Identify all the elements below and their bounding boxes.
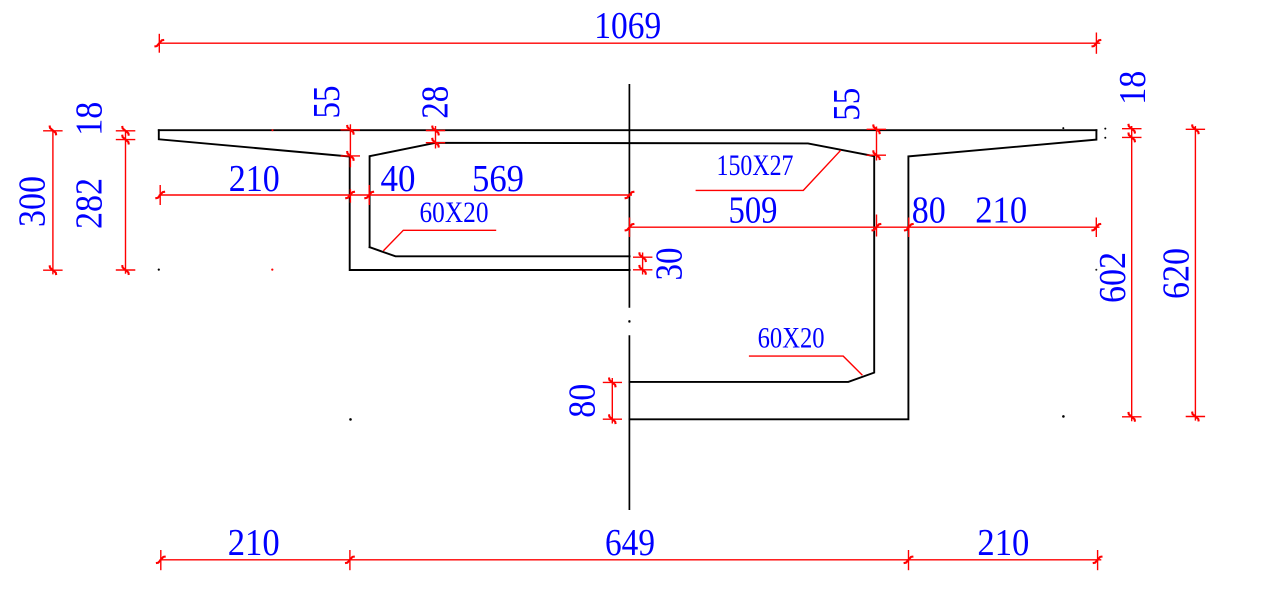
svg-text:60X20: 60X20	[758, 322, 825, 355]
svg-text:28: 28	[415, 86, 457, 119]
svg-text:80: 80	[561, 384, 603, 418]
svg-text:1069: 1069	[594, 5, 661, 47]
svg-text:620: 620	[1156, 248, 1198, 299]
svg-text:60X20: 60X20	[420, 196, 489, 229]
svg-text:40: 40	[381, 158, 416, 200]
svg-text:282: 282	[69, 178, 111, 229]
svg-text:300: 300	[11, 176, 53, 227]
svg-text:210: 210	[975, 189, 1027, 231]
svg-text:210: 210	[229, 158, 280, 200]
svg-text:210: 210	[228, 522, 280, 564]
svg-text:30: 30	[649, 248, 691, 281]
svg-text:55: 55	[826, 88, 868, 121]
svg-text:649: 649	[605, 522, 655, 564]
svg-text:18: 18	[1112, 71, 1154, 105]
svg-text:55: 55	[306, 86, 348, 119]
svg-text:602: 602	[1092, 252, 1134, 303]
svg-text:569: 569	[472, 158, 524, 200]
svg-text:18: 18	[69, 102, 111, 136]
svg-text:210: 210	[977, 522, 1029, 564]
svg-text:150X27: 150X27	[717, 149, 794, 182]
svg-text:80: 80	[912, 189, 946, 231]
svg-text:509: 509	[729, 189, 778, 231]
